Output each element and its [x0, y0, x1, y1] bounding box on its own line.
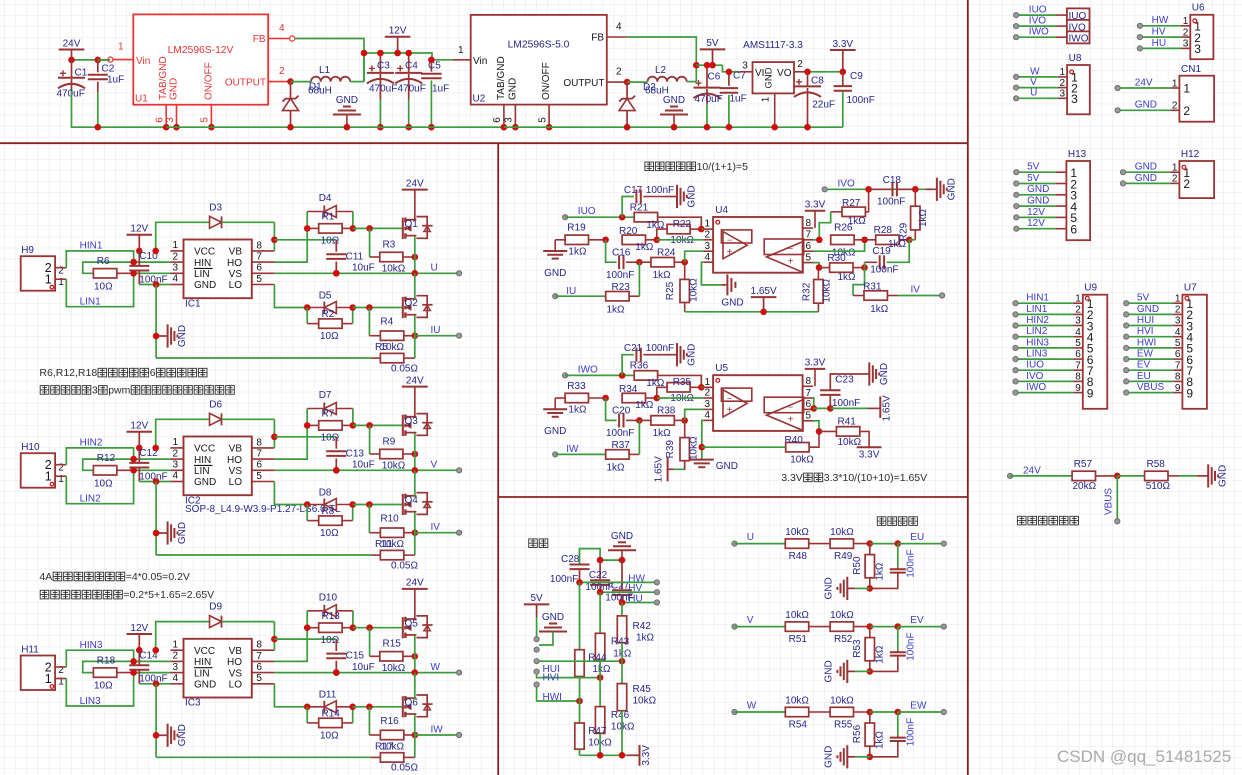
wire LIN1 net: [66, 273, 170, 306]
pin 6 U2: [503, 105, 505, 128]
svg-text:8: 8: [806, 218, 812, 229]
pin 8 U7: [1173, 380, 1182, 382]
resistor R21 1k: [634, 213, 657, 222]
wire IW line: [555, 453, 606, 455]
net port W: [732, 709, 737, 714]
svg-text:OUTPUT: OUTPUT: [225, 78, 266, 89]
junction R30 right: [861, 264, 868, 271]
pin 2 CN1: [1170, 109, 1179, 111]
svg-text:1: 1: [704, 219, 710, 230]
svg-text:R35: R35: [673, 377, 692, 388]
wire EU: [1126, 380, 1173, 382]
svg-text:HIN: HIN: [194, 455, 211, 466]
svg-text:10Ω: 10Ω: [320, 731, 339, 742]
junction VS Cb: [333, 669, 340, 676]
wire source Q1 to U line: [414, 236, 416, 273]
wire shunt return IC1: [156, 357, 371, 359]
svg-text:10/(1+1)=5: 10/(1+1)=5: [697, 161, 749, 173]
wire HIN2 net: [66, 448, 170, 465]
svg-text:HIN: HIN: [194, 657, 211, 668]
junction pin7 node: [816, 237, 823, 244]
svg-text:0.05Ω: 0.05Ω: [391, 560, 418, 571]
net port U7 pin9: [1124, 390, 1129, 395]
junction gnd symbol IC2: [153, 530, 160, 537]
svg-text:1kΩ: 1kΩ: [568, 246, 587, 257]
junction 12V IC3: [136, 647, 143, 654]
svg-text:6: 6: [256, 263, 262, 274]
ground C21: [666, 354, 678, 356]
svg-text:1uF: 1uF: [107, 75, 124, 86]
resistor R7 10R: [319, 421, 342, 430]
svg-text:1.65V: 1.65V: [654, 456, 665, 482]
capacitor C4 470uF: [408, 53, 410, 73]
svg-text:100nF: 100nF: [906, 549, 917, 577]
svg-text:HO: HO: [227, 258, 242, 269]
pin 2 U2 OUTPUT: [607, 81, 627, 83]
pin 2 IC1 left: [170, 261, 183, 263]
svg-text:EU: EU: [910, 532, 924, 543]
svg-text:1kΩ: 1kΩ: [653, 270, 672, 281]
resistor R55 10k: [830, 707, 853, 716]
svg-text:10uF: 10uF: [352, 460, 375, 471]
pin 6 H13: [1055, 228, 1066, 230]
svg-text:R2: R2: [322, 309, 335, 320]
junction R1 right: [350, 225, 357, 232]
junction C4 top: [405, 50, 412, 57]
junction VB IC3: [271, 636, 278, 643]
svg-text:HIN1: HIN1: [1026, 293, 1049, 304]
svg-text:IVO: IVO: [1026, 371, 1043, 382]
junction U2 pin5 rail: [546, 124, 553, 131]
section divider horizontal mid-right: [498, 496, 968, 498]
svg-text:3: 3: [172, 263, 178, 274]
wire gnd column IC2: [155, 482, 157, 556]
svg-text:GND: GND: [194, 477, 216, 488]
svg-text:GND: GND: [542, 612, 564, 623]
wire gnd column IC1: [155, 285, 157, 359]
net port IVO top: [1014, 24, 1019, 29]
svg-text:6: 6: [1070, 223, 1077, 237]
wire LIN2 net: [66, 470, 170, 503]
junction node A2: [654, 395, 661, 402]
pin 6 U1 TAB/GND: [165, 105, 167, 128]
junction 12V stem: [394, 50, 401, 57]
svg-text:R56: R56: [852, 724, 863, 743]
junction C7 rail: [726, 124, 733, 131]
junction C5 top: [428, 57, 435, 64]
wire EW out: [898, 711, 944, 713]
wire gnd column IC3: [155, 684, 157, 758]
pin 3 IC3 left: [170, 672, 183, 674]
svg-text:10kΩ: 10kΩ: [830, 695, 854, 706]
svg-text:R42: R42: [633, 621, 652, 632]
svg-text:24V: 24V: [406, 178, 424, 189]
resistor R26 10k: [831, 235, 854, 244]
net port H13 pin6: [1014, 226, 1019, 231]
svg-text:1: 1: [45, 672, 52, 686]
svg-text:12V: 12V: [1027, 218, 1045, 229]
svg-text:HWI: HWI: [543, 692, 562, 703]
svg-text:12V: 12V: [130, 224, 148, 235]
pin 1 H13: [1055, 171, 1066, 173]
svg-text:1: 1: [172, 437, 178, 448]
wire EU out: [898, 543, 944, 545]
pin 1 U9: [1074, 302, 1083, 304]
net port U: [732, 541, 737, 546]
net port U9 pin2: [1013, 312, 1018, 317]
svg-text:U7: U7: [1184, 283, 1197, 294]
svg-text:HIN: HIN: [194, 258, 211, 269]
svg-text:EW: EW: [910, 701, 927, 712]
pin 5 U7: [1173, 347, 1182, 349]
svg-text:10kΩ: 10kΩ: [830, 610, 854, 621]
pin 5 IC1 right: [252, 284, 275, 286]
svg-text:10kΩ: 10kΩ: [633, 695, 657, 706]
junction R28 right: [906, 237, 913, 244]
wire HU: [622, 602, 657, 604]
capacitor C22 100nF: [599, 560, 601, 579]
junction VCC Dtop IC1: [152, 248, 159, 255]
wire L2 to 5V node: [687, 81, 697, 83]
svg-text:HVI: HVI: [543, 673, 560, 684]
ground IVO: [925, 188, 937, 190]
svg-text:1: 1: [172, 240, 178, 251]
svg-text:R52: R52: [834, 634, 853, 645]
junction R40 tap: [699, 444, 706, 451]
svg-text:2: 2: [1183, 27, 1189, 38]
wire IC1 gnd pin: [139, 284, 170, 286]
wire LO loop IC1: [274, 285, 307, 308]
svg-text:10kΩ: 10kΩ: [830, 527, 854, 538]
wire 5V 1: [1016, 171, 1055, 173]
svg-text:pwm: pwm: [108, 385, 130, 397]
svg-text:GND: GND: [169, 78, 180, 100]
svg-text:IC1: IC1: [185, 298, 201, 309]
wire gate low Q2: [353, 307, 403, 309]
svg-text:C2: C2: [102, 64, 115, 75]
op-amp U4 amp2: [764, 239, 804, 255]
net port HUI: [534, 659, 539, 664]
resistor R50 1k: [865, 555, 874, 578]
junction HVI: [597, 674, 604, 681]
svg-text:GND: GND: [544, 268, 566, 279]
junction AMS gnd rail: [771, 124, 778, 131]
net port V: [732, 624, 737, 629]
wire R51 mid: [809, 626, 830, 628]
svg-text:IC3: IC3: [185, 698, 201, 709]
wire C4 bottom to rail: [408, 100, 410, 128]
wire VB to C boot IC2: [274, 436, 336, 438]
svg-text:HUI: HUI: [1137, 315, 1154, 326]
resistor R5 0.05R shunt: [380, 353, 403, 362]
svg-text:3: 3: [504, 117, 515, 123]
svg-text:2: 2: [616, 67, 622, 78]
net port V: [457, 468, 462, 473]
pin 6 IC2 right: [252, 469, 275, 471]
junction C4 rail: [405, 124, 412, 131]
junction gate high tap: [366, 225, 373, 232]
wire GND 3: [1016, 194, 1055, 196]
capacitor C28 100nF: [570, 564, 590, 566]
net port IWO: [563, 373, 568, 378]
pin 1 H12: [1170, 171, 1179, 173]
capacitor C10 100nF: [138, 251, 140, 266]
net port U9 pin6: [1013, 357, 1018, 362]
svg-text:1: 1: [118, 42, 124, 53]
junction U1 pin3 rail: [173, 124, 180, 131]
resistor R35 10k feedback: [667, 383, 690, 392]
wire R57 to R58: [1117, 475, 1144, 477]
svg-text:LIN1: LIN1: [1026, 304, 1048, 315]
ground rail middle section: [364, 126, 504, 128]
pin 7 U4: [803, 239, 813, 241]
net port U9 pin8: [1013, 379, 1018, 384]
svg-text:GND: GND: [194, 280, 216, 291]
svg-text:L2: L2: [655, 65, 667, 76]
pin 2 U9: [1074, 313, 1083, 315]
svg-text:IUO: IUO: [578, 206, 596, 217]
junction D1 rail: [287, 124, 294, 131]
wire C1 bottom to rail: [72, 91, 167, 127]
junction VS source: [412, 467, 419, 474]
pin 2 AMS VO: [794, 71, 808, 73]
junction C11 bottom: [333, 270, 340, 277]
wire VBUS: [1126, 392, 1173, 394]
section divider vertical right: [967, 0, 969, 775]
junction C1 top: [68, 57, 75, 64]
svg-text:HU: HU: [1152, 38, 1166, 49]
resistor R22 10k feedback: [667, 224, 690, 233]
svg-text:IWO: IWO: [1026, 382, 1046, 393]
wire HV: [1140, 36, 1181, 38]
net port U7 pin1: [1124, 301, 1129, 306]
wire hall 3.3V rail: [579, 749, 581, 755]
diode D8: [307, 504, 324, 506]
svg-text:+: +: [788, 256, 794, 267]
svg-text:C20: C20: [612, 406, 631, 417]
ground symbol IC1: [156, 335, 168, 337]
junction gnd symbol IC3: [153, 732, 160, 739]
junction VS Cb: [333, 467, 340, 474]
pin 1 U8: [1058, 76, 1067, 78]
svg-text:10uF: 10uF: [352, 263, 375, 274]
resistor R6 10R: [83, 262, 134, 273]
net port 5V hall: [534, 637, 539, 642]
wire VBUS down: [1116, 476, 1118, 521]
svg-text:=0.2*5+1.65=2.65V: =0.2*5+1.65=2.65V: [123, 589, 214, 601]
regulator AMS1117-3.3: [753, 62, 795, 93]
junction IU node: [412, 332, 419, 339]
svg-text:8: 8: [1175, 372, 1181, 383]
wire U output line: [274, 272, 459, 274]
svg-text:LIN: LIN: [194, 668, 210, 679]
pin 6 U5: [803, 408, 813, 410]
wire hall c28 jog: [580, 549, 601, 565]
wire V in: [735, 626, 786, 628]
wire 24V drain Q3: [414, 397, 416, 418]
svg-text:C16: C16: [612, 247, 631, 258]
junction pin1 node: [698, 384, 705, 391]
junction C2 rail: [95, 124, 102, 131]
svg-text:GND: GND: [716, 461, 738, 472]
net port EW: [941, 709, 946, 714]
resistor R41 10k: [836, 427, 859, 436]
wire LIN3 net: [66, 673, 170, 706]
wire VB column IC1: [273, 222, 275, 251]
op-amp U4 amp1: [721, 230, 751, 243]
svg-text:VCC: VCC: [194, 247, 215, 258]
svg-text:8: 8: [256, 240, 262, 251]
note text amplified: [40, 589, 214, 601]
svg-text:HO: HO: [227, 455, 242, 466]
svg-text:C8: C8: [811, 76, 824, 87]
svg-text:HWI: HWI: [1137, 337, 1156, 348]
pin 3 U7: [1173, 325, 1182, 327]
pin 2 H12: [1170, 182, 1179, 184]
svg-text:=4*0.05=0.2V: =4*0.05=0.2V: [126, 571, 190, 583]
junction C3 rail: [377, 124, 384, 131]
note text 3pwm: [40, 385, 234, 397]
svg-text:R41: R41: [838, 417, 857, 428]
net port IUO top: [1014, 13, 1019, 18]
svg-text:2: 2: [1175, 305, 1181, 316]
resistor R11 0.05R shunt: [380, 550, 403, 559]
diode D4: [307, 211, 324, 213]
wire HV: [600, 591, 657, 593]
svg-text:2: 2: [1183, 104, 1190, 118]
svg-text:VS: VS: [229, 466, 243, 477]
svg-text:6: 6: [256, 460, 262, 471]
svg-text:1: 1: [1172, 162, 1178, 173]
wire IWO: [1016, 392, 1074, 394]
section divider horizontal top: [0, 142, 968, 144]
wire U in: [735, 543, 786, 545]
svg-text:6: 6: [1075, 349, 1081, 360]
wire C6 bottom to rail: [706, 104, 708, 127]
svg-text:9: 9: [1186, 386, 1193, 400]
svg-text:−: −: [788, 244, 793, 254]
svg-text:C18: C18: [883, 175, 902, 186]
svg-text:10kΩ: 10kΩ: [822, 278, 833, 302]
svg-text:R12: R12: [97, 453, 116, 464]
wire 12V rail: [364, 53, 453, 60]
pin 6 U4: [803, 250, 813, 252]
pin 1 U1 Vin: [113, 59, 134, 61]
wire R40 line: [702, 446, 786, 448]
svg-text:10kΩ: 10kΩ: [689, 278, 700, 302]
resistor R24 1k: [651, 258, 674, 267]
wire HVI: [1126, 336, 1173, 338]
svg-text:100nF: 100nF: [847, 95, 875, 106]
wire HO loop IC1: [274, 212, 307, 263]
wire IW output line: [415, 734, 459, 736]
junction C15 bottom: [333, 669, 340, 676]
ground hall small: [539, 631, 567, 633]
junction 5V stem: [709, 62, 716, 69]
wire EV: [1126, 369, 1173, 371]
net port IWO top: [1014, 35, 1019, 40]
svg-text:6: 6: [1175, 349, 1181, 360]
net port U7 pin2: [1124, 312, 1129, 317]
svg-text:GND: GND: [177, 522, 188, 544]
svg-text:8: 8: [1075, 372, 1081, 383]
resistor R46 10k: [599, 660, 601, 707]
wire pin6 loop U4: [813, 240, 865, 251]
junction VS source: [412, 270, 419, 277]
junction R18 right: [130, 669, 137, 676]
ground C23: [858, 373, 870, 375]
junction node C: [681, 417, 688, 424]
wire HW: [1140, 25, 1181, 27]
wire HIN3: [1016, 347, 1074, 349]
junction hall gnd c22: [597, 557, 604, 564]
junction 12V IC1: [136, 248, 143, 255]
power flag 3.3V U4: [805, 210, 825, 212]
svg-text:10kΩ: 10kΩ: [785, 527, 809, 538]
resistor R53 1k: [865, 638, 874, 661]
wire drain Q2: [414, 273, 416, 300]
svg-text:U9: U9: [1084, 283, 1097, 294]
svg-text:5: 5: [1175, 338, 1181, 349]
svg-text:D7: D7: [319, 390, 332, 401]
svg-text:R45: R45: [633, 684, 652, 695]
resistor R47 10k: [579, 677, 581, 724]
pin 5 U9: [1074, 347, 1083, 349]
pin 2 H9: [55, 267, 66, 269]
junction gnd branch IC1: [153, 281, 160, 288]
svg-text:VB: VB: [229, 444, 243, 455]
svg-text:3: 3: [1194, 42, 1201, 56]
svg-text:R6: R6: [97, 256, 110, 267]
net port IU: [553, 294, 558, 299]
svg-text:+: +: [727, 247, 733, 258]
svg-text:10kΩ: 10kΩ: [832, 248, 856, 259]
net port U9 pin1: [1013, 301, 1018, 306]
junction R53 gnd: [867, 668, 874, 675]
svg-text:Q4: Q4: [405, 495, 419, 506]
power flag 3.3V R41: [857, 446, 882, 448]
svg-text:R6,R12,R18: R6,R12,R18: [39, 367, 97, 379]
junction C6 top: [704, 62, 711, 69]
svg-text:6: 6: [150, 367, 156, 379]
junction HWI: [576, 698, 583, 705]
junction U1 pin5 rail: [208, 124, 215, 131]
net port H12 pin2: [1120, 181, 1125, 186]
net port U7 pin8: [1124, 379, 1129, 384]
junction U2 OUTPUT: [624, 79, 631, 86]
svg-text:U: U: [747, 532, 754, 543]
junction C8 top: [804, 69, 811, 76]
net port IUO: [563, 215, 568, 220]
pin 3 U5: [703, 408, 713, 410]
svg-text:R5: R5: [375, 342, 388, 353]
resistor R45 10k: [621, 643, 623, 684]
connector U9: [1083, 295, 1108, 409]
resistor R43 1k: [599, 592, 601, 633]
pin 4 U9: [1074, 336, 1083, 338]
pin 8 IC3 right: [252, 649, 275, 651]
net port HWI: [534, 682, 539, 687]
net port U9 pin7: [1013, 368, 1018, 373]
svg-text:3.3V: 3.3V: [805, 200, 826, 211]
svg-text:4: 4: [616, 22, 622, 33]
pin 2 U5: [703, 397, 713, 399]
net port U7 pin7: [1124, 368, 1129, 373]
wire LO loop IC3: [274, 684, 307, 707]
wire IWO top: [1016, 36, 1055, 38]
junction IWO C tap: [619, 372, 626, 379]
junction EV a: [867, 623, 874, 630]
